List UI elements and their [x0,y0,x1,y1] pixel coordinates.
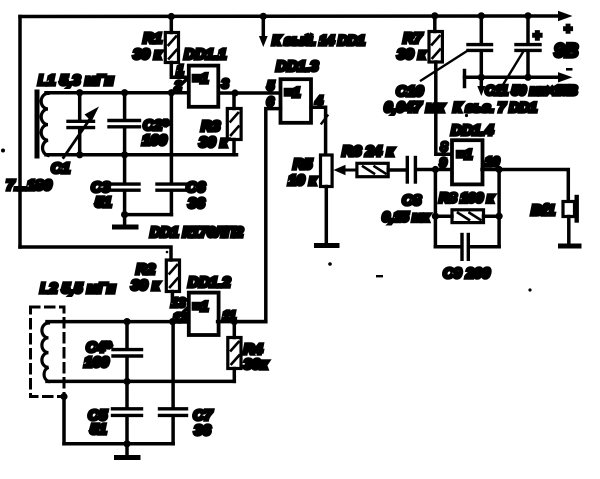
svg-text:=1: =1 [193,298,209,314]
svg-text:=1: =1 [457,146,473,162]
svg-text:DD1.3: DD1.3 [276,58,319,75]
wire tank1 mid [46,153,237,157]
node top rail junction C11 [524,12,531,19]
potentiometer R5 [321,155,333,187]
svg-text:DD1.2: DD1.2 [188,274,231,291]
svg-text:+: + [533,27,541,43]
capacitor C2 [123,93,127,119]
ground Bf1 [561,244,580,249]
svg-text:L1 5,3 мГн: L1 5,3 мГн [38,72,114,89]
wiper arrow R5 [343,169,357,172]
wire R8 right vertical [497,170,501,247]
capacitor C8 [406,158,409,183]
wire R6 to C8 [388,168,405,172]
wire R2 to pin13 [172,292,187,300]
wire C8 junction to pin 9 [432,166,439,173]
svg-text:7...180: 7...180 [6,177,53,194]
capacitor C9 [435,245,460,249]
capacitor C5 [125,381,129,407]
node C2 bottom [121,151,128,158]
svg-text:30к: 30к [244,356,270,373]
capacitor C11 electrolytic [526,16,530,43]
ground tank1 [123,215,127,226]
node C4 bottom [123,378,130,385]
node C4 top [123,318,130,325]
svg-text:C9 200: C9 200 [443,266,490,282]
ground R5 [317,243,338,248]
wire arrow to pin 14 DD1 [262,16,266,37]
capacitor C6 [170,93,174,183]
wire R1 to pin1 [171,63,187,78]
svg-text:8: 8 [441,139,449,154]
svg-text:=1: =1 [285,84,301,100]
svg-text:R3: R3 [201,118,221,135]
resistor R8 [452,210,484,223]
svg-text:3: 3 [222,76,230,91]
svg-text:39 к: 39 к [397,46,427,63]
wire diagonal to pin 2 [174,79,188,92]
svg-text:+: + [564,21,572,36]
node top rail junction R1 [168,13,175,20]
capacitor C3 [123,155,127,183]
node top rail junction R7 [431,12,438,19]
svg-text:9: 9 [440,155,448,170]
speck marks (scan noise) [1,149,5,153]
svg-text:R7: R7 [403,30,423,47]
svg-text:=1: =1 [193,70,209,86]
svg-text:30 к: 30 к [199,134,229,151]
wire diagonal pin12 [175,307,189,321]
node top rail junction C10 [478,12,485,19]
wire tank2 top [47,320,188,324]
svg-text:10 к: 10 к [288,172,318,189]
resistor R2 [166,260,179,292]
ground tank2 [125,444,129,456]
wire tank2 bottom [64,442,173,446]
node C1 bottom [76,151,83,158]
node pin11 [231,318,238,325]
wire top +9V rail [20,14,559,18]
op-amp U: gate DD1.2 [189,293,219,335]
svg-text:К вьв. 7 DD1: К вьв. 7 DD1 [453,100,537,116]
op-amp U: gate DD1.3 [281,79,312,123]
resistor R1 [170,17,174,33]
svg-text:DD1.4: DD1.4 [451,122,494,139]
svg-text:Bf1: Bf1 [531,202,555,219]
node shield [60,393,67,400]
wire left border to R2 [20,247,171,260]
svg-text:R6 24 к: R6 24 к [342,143,395,160]
op-amp U: gate DD1.1 [189,66,219,107]
svg-text:36: 36 [194,422,211,439]
node top rail junction arrow 14 [260,13,267,20]
wire R8 left vertical [434,170,438,247]
wire tank2 mid [47,380,234,384]
svg-text:39 к: 39 к [133,46,163,63]
node pin12 [169,318,176,325]
svg-text:0,047 мк: 0,047 мк [384,99,446,116]
wire kink tick [322,116,328,124]
svg-text:0,15 мк: 0,15 мк [382,210,430,226]
svg-text:К вый. 14 DD1: К вый. 14 DD1 [272,32,365,48]
svg-text:13: 13 [171,295,186,310]
node ground tank1 [121,211,128,218]
svg-text:9В: 9В [554,41,579,62]
svg-text:C10: C10 [396,83,424,100]
svg-text:2: 2 [174,78,183,93]
wire pin4 to R5 [311,107,326,155]
capacitor C1 variable [78,93,82,120]
inductor L2 [42,322,49,382]
svg-text:DD1 К176ЛП2: DD1 К176ЛП2 [150,225,243,241]
node pin10 [496,166,503,173]
wire tank1 top [46,91,188,95]
resistor R7 [433,16,437,32]
inductor L1 [41,93,48,156]
wire minus rail [463,71,467,87]
inductor L1 core [35,92,40,156]
wire DD1.1 out to DD1.3 [218,91,279,95]
svg-text:100: 100 [142,132,168,149]
svg-text:C6: C6 [186,179,206,196]
svg-text:R5: R5 [293,156,313,173]
svg-text:51: 51 [95,194,112,211]
wire tank1 bottom [125,213,172,217]
svg-text:39 к: 39 к [131,277,161,294]
node ground tank2 [123,440,130,447]
node C1 top [76,89,83,96]
svg-text:L2 5,5 мГн: L2 5,5 мГн [40,280,116,297]
op-amp U: gate DD1.4 [452,140,483,184]
svg-text:1: 1 [177,62,184,77]
wire DD1.2 out [218,320,266,324]
wire C11 leader [501,52,523,88]
wire pin10 to Bf1 [482,170,568,202]
capacitor C4 [125,322,129,348]
svg-text:С11 50 мк×15В: С11 50 мк×15В [485,83,578,98]
svg-text:R1: R1 [143,30,162,47]
svg-text:C1: C1 [51,160,70,177]
wire R7 to pin8 [436,62,452,154]
node C2 top [121,89,128,96]
wire C10 down arrow pin7 [480,77,484,87]
svg-text:6: 6 [267,94,275,109]
svg-text:5: 5 [267,78,275,93]
svg-text:C8: C8 [402,192,422,209]
svg-text:160: 160 [84,354,110,371]
node pin2 R1 C6 [168,89,175,96]
resistor R6 [357,163,388,176]
shield L2 dashed [31,307,65,397]
capacitor C7 [171,322,175,407]
+9V arrow [558,11,573,21]
svg-text:R2: R2 [136,261,156,278]
wire pin6 feedback [234,109,280,322]
svg-text:R8 100 к: R8 100 к [439,191,495,207]
wire shield to ground [62,397,66,444]
wire C10 leader [421,51,467,81]
resistor R3 [232,93,236,109]
svg-text:36: 36 [188,195,205,212]
svg-text:DD1.1: DD1.1 [184,46,227,63]
capacitor C10 [480,16,484,43]
resistor R4 [233,322,237,338]
svg-text:51: 51 [90,421,107,438]
node DD1.1 output [231,89,238,96]
wire left border [18,17,22,248]
buzzer Bf1 [563,202,575,217]
